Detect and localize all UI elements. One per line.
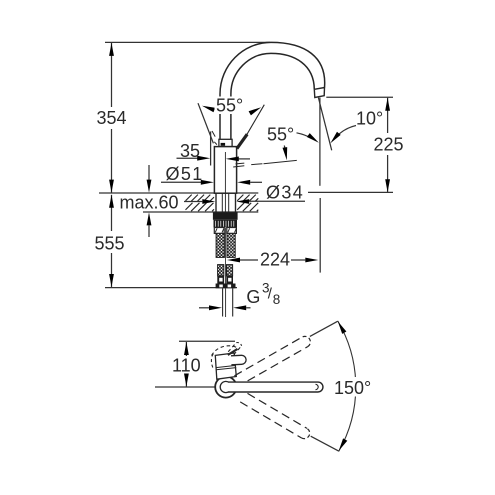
svg-text:555: 555	[95, 234, 125, 254]
svg-text:Ø34: Ø34	[266, 182, 304, 202]
svg-text:35: 35	[180, 141, 200, 161]
svg-text:Ø51: Ø51	[166, 164, 204, 184]
svg-text:110: 110	[172, 356, 201, 376]
svg-text:150°: 150°	[334, 378, 371, 398]
svg-text:max.60: max.60	[120, 193, 179, 213]
svg-text:8: 8	[273, 292, 281, 307]
svg-text:354: 354	[97, 108, 127, 128]
svg-text:10°: 10°	[356, 109, 383, 129]
svg-text:55°: 55°	[267, 125, 294, 145]
svg-text:55°: 55°	[216, 96, 243, 116]
svg-text:224: 224	[260, 250, 290, 270]
svg-text:225: 225	[374, 135, 404, 155]
svg-text:G: G	[246, 287, 260, 307]
